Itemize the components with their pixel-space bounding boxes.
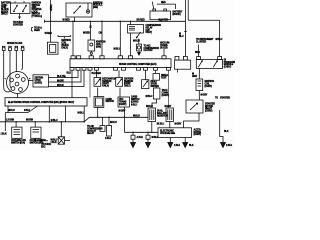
svg-text:BLK: BLK	[224, 131, 229, 133]
label W RED	[63, 20, 71, 22]
svg-text:(GM): (GM)	[96, 46, 101, 48]
svg-text:(CHRY): (CHRY)	[194, 134, 202, 136]
svg-text:RESISTOR: RESISTOR	[157, 115, 168, 117]
pickup A bottom stub	[177, 69, 179, 72]
wire relay box to ECU tab	[130, 33, 132, 56]
ECU top pin tabs	[71, 56, 166, 59]
svg-text:M GRY: M GRY	[119, 110, 126, 112]
spark plug 1	[2, 46, 5, 57]
label M BLU right feed	[179, 34, 184, 38]
svg-text:1 BLK: 1 BLK	[51, 142, 57, 144]
svg-text:GRN: GRN	[192, 76, 197, 78]
svg-text:TEST: TEST	[161, 77, 167, 79]
busR junction dots	[97, 117, 125, 119]
svg-text:(CHRY): (CHRY)	[162, 95, 170, 97]
pickup B diagonal 1	[198, 61, 202, 68]
svg-text:1.5 BRN: 1.5 BRN	[6, 120, 14, 122]
svg-text:M BLU: M BLU	[8, 110, 15, 112]
svg-text:M BRN: M BRN	[26, 120, 33, 122]
svg-text:(CHRY): (CHRY)	[131, 101, 139, 103]
ECU box	[70, 59, 171, 68]
svg-text:ONLY): ONLY)	[61, 47, 68, 49]
wire transducer down to bus3	[123, 107, 125, 132]
knock sensor box	[31, 127, 41, 138]
svg-text:FEED: FEED	[34, 30, 40, 32]
compressor relay branch	[130, 21, 132, 24]
spark plug 4	[21, 46, 24, 57]
carb switch to busR	[97, 107, 99, 117]
label M BLU	[8, 110, 15, 112]
wire ballast B top	[168, 70, 170, 108]
svg-text:M BLU: M BLU	[216, 39, 223, 41]
label M GRY	[119, 110, 126, 112]
relay switch blade	[136, 32, 140, 38]
to buick esc text	[40, 140, 48, 142]
wire circle to distributor box	[29, 80, 34, 82]
svg-text:M BLU: M BLU	[110, 122, 117, 124]
svg-text:M BLU: M BLU	[146, 106, 153, 108]
bus3 junction dots	[132, 132, 152, 134]
bus right (high)	[89, 116, 148, 118]
svg-text:BR RED: BR RED	[137, 20, 146, 22]
ESC left drop	[5, 106, 28, 131]
right ground wire	[220, 110, 223, 143]
svg-text:W RED: W RED	[45, 33, 53, 35]
wire distributor to ESC	[17, 94, 19, 98]
svg-text:ELECTRONIC SPARK CONTROL COMPU: ELECTRONIC SPARK CONTROL COMPUTER (ESC) …	[8, 101, 74, 104]
main bus wire	[45, 20, 186, 22]
alternator ground 2	[184, 138, 186, 143]
right top horizontal	[188, 19, 219, 21]
coolant sensor box	[12, 127, 22, 138]
svg-text:M BLU: M BLU	[133, 41, 140, 43]
ballast resistor A	[148, 108, 156, 122]
wire bus to ECU tab	[72, 21, 74, 56]
svg-text:SWITCH: SWITCH	[106, 101, 115, 103]
to starter text right	[215, 96, 230, 99]
carburetor switch box	[94, 97, 104, 108]
coil connector box	[88, 40, 95, 51]
connector to accessories	[32, 28, 34, 32]
module tower circle	[86, 10, 89, 13]
to instrument cluster text	[196, 39, 214, 43]
connector ticks on M RED	[89, 26, 91, 27]
label M RED	[83, 32, 90, 34]
svg-text:M BLK: M BLK	[57, 85, 64, 87]
ground drop 1	[132, 132, 134, 135]
ignition module box (top middle)	[66, 3, 92, 17]
ignition coil chry box	[196, 79, 203, 91]
label BLK RED	[159, 20, 169, 22]
bus left (low)	[0, 121, 84, 123]
ground drop 2	[147, 132, 149, 135]
svg-text:1 BLK: 1 BLK	[1, 133, 7, 135]
label 5 RED top (rotated)	[49, 5, 51, 12]
tach connector box	[155, 80, 157, 88]
svg-text:RED: RED	[161, 2, 166, 4]
svg-text:SWITCH: SWITCH	[151, 86, 160, 88]
right ground arrow	[221, 143, 226, 148]
wire oxygen to transducer	[119, 88, 121, 98]
distributor cap circle	[7, 72, 29, 94]
plug wire 4	[22, 57, 23, 70]
svg-text:(CHRY): (CHRY)	[35, 82, 43, 84]
svg-text:M BLU: M BLU	[114, 48, 121, 50]
svg-text:VOLTAGE REG: VOLTAGE REG	[160, 132, 175, 135]
svg-text:1 BLK: 1 BLK	[226, 145, 232, 147]
distributor pickup box B	[196, 60, 222, 69]
svg-text:M BLU: M BLU	[146, 96, 153, 98]
ignition coil buick text	[61, 40, 71, 49]
label M BLU bend	[78, 112, 85, 114]
label 1.5 BRN	[6, 120, 14, 122]
plug wire 3	[15, 57, 17, 72]
spark plug 2	[8, 46, 11, 57]
svg-text:(CHRY): (CHRY)	[205, 86, 213, 88]
label BR RED	[137, 20, 146, 22]
M RED branch wire	[90, 21, 92, 40]
svg-text:BLK: BLK	[189, 145, 194, 147]
bus left end bracket	[44, 20, 46, 23]
program module text	[224, 59, 235, 68]
svg-text:(BUICK): (BUICK)	[173, 14, 181, 16]
bus step	[84, 117, 89, 122]
busL junction dots	[15, 121, 85, 123]
wire coil chry down	[198, 91, 200, 101]
label 6 BLK	[24, 110, 30, 112]
wire to ballast A	[152, 99, 157, 108]
connector box below busL	[60, 122, 62, 137]
spark plugs label	[7, 42, 23, 45]
svg-text:M BLU: M BLU	[51, 139, 58, 141]
pickup B top pins	[197, 57, 201, 60]
svg-text:STARTER: STARTER	[220, 96, 230, 99]
battery terminals	[153, 9, 156, 11]
svg-text:TO: TO	[215, 97, 218, 99]
oxygen sensor box	[116, 78, 123, 87]
label M BLU mid	[51, 120, 58, 122]
wire battery to bus	[159, 20, 161, 22]
idle stop switch box	[142, 80, 149, 89]
bus3 wire	[124, 131, 158, 133]
vacuum transducer wire	[163, 49, 165, 56]
red feed wire vertical	[50, 0, 52, 42]
alternator ground 1	[169, 138, 171, 143]
svg-text:(CHRY): (CHRY)	[224, 67, 232, 69]
svg-text:RELAY: RELAY	[87, 132, 95, 135]
label RED	[161, 2, 166, 4]
clutch ground arrow	[138, 53, 141, 56]
svg-text:BRN: BRN	[195, 52, 200, 54]
svg-text:ESC: ESC	[41, 147, 46, 149]
label BLK/RED	[92, 73, 102, 75]
switch blade 1	[14, 5, 18, 11]
svg-text:CLUTCH: CLUTCH	[144, 50, 153, 52]
vacuum transducer chry box	[118, 97, 130, 107]
svg-text:M GRY: M GRY	[165, 106, 172, 108]
svg-text:(TYPICAL): (TYPICAL)	[32, 15, 43, 18]
svg-text:BLU: BLU	[179, 36, 184, 38]
ECU bottom pins	[70, 68, 171, 71]
label M BLU far right	[216, 39, 223, 41]
pickup output wire	[198, 68, 200, 79]
svg-text:M BLK: M BLK	[152, 137, 159, 139]
wire module box to bus	[74, 17, 76, 21]
distributor hold-down tabs	[5, 77, 31, 80]
svg-text:STARTER: STARTER	[13, 23, 23, 26]
svg-text:M BLU: M BLU	[133, 115, 140, 117]
M BLU wire bus to ECU	[119, 21, 121, 56]
resistor block	[47, 42, 58, 54]
right feed double vertical	[186, 0, 189, 56]
svg-text:M GRY: M GRY	[175, 124, 182, 126]
ECU feed wire	[101, 21, 103, 56]
knock box drop	[34, 122, 36, 127]
starter relay box	[186, 100, 203, 113]
svg-text:M BLU: M BLU	[51, 120, 58, 122]
alternator text right	[194, 128, 202, 136]
label M BLU busR	[133, 115, 140, 117]
pickup coil box A	[175, 60, 191, 69]
svg-text:BLK: BLK	[67, 72, 72, 74]
alternator box	[158, 128, 192, 138]
svg-text:BLK YEL: BLK YEL	[57, 76, 67, 78]
dwell connector box	[155, 70, 157, 73]
svg-text:ONLY): ONLY)	[1, 14, 8, 16]
coolant label	[11, 139, 26, 144]
label on ECU feed	[99, 32, 103, 34]
svg-text:SWITCH (BUI): SWITCH (BUI)	[11, 142, 25, 144]
label M BLU near ballast	[146, 96, 153, 98]
wire coil connector to ECU pin	[90, 51, 92, 56]
svg-text:ONLY): ONLY)	[146, 32, 153, 34]
ESC computer box	[5, 98, 87, 106]
knock label	[30, 139, 47, 144]
text right of transducer	[131, 96, 140, 104]
to buick text	[13, 22, 24, 26]
compressor relay box	[128, 25, 144, 33]
plug wire 2	[10, 57, 12, 88]
wire relay to alternator	[184, 113, 200, 128]
battery feed horizontal	[157, 4, 176, 9]
brn wire	[198, 45, 200, 57]
compressor clutch box	[137, 44, 142, 51]
svg-text:ONLY): ONLY)	[102, 86, 109, 88]
module label	[93, 2, 103, 8]
ignition switch label text (right of box)	[32, 3, 43, 18]
plug wire 1	[4, 57, 11, 92]
battery wire diagonal	[152, 2, 154, 9]
bus junction dots	[50, 21, 163, 23]
distributor connector box	[33, 75, 49, 87]
svg-text:(CHRY): (CHRY)	[205, 111, 213, 113]
pickup B diagonal 2	[213, 61, 217, 68]
module switch blade	[74, 6, 81, 13]
label 5 RED lower (rotated)	[45, 33, 53, 35]
wire relay to clutch	[138, 39, 140, 45]
ballast bracket	[58, 35, 71, 39]
battery box	[150, 11, 171, 20]
ESC to busL wires	[49, 106, 84, 122]
svg-text:1 BLK: 1 BLK	[174, 145, 180, 147]
ignition switch box	[11, 3, 31, 14]
svg-text:CLUSTER: CLUSTER	[196, 42, 206, 44]
svg-text:ONLY): ONLY)	[124, 86, 131, 88]
connector under switch	[18, 17, 21, 19]
svg-text:(GM): (GM)	[93, 7, 98, 9]
svg-text:SPARK CONTROL COMPUTER (ECU): SPARK CONTROL COMPUTER (ECU)	[119, 63, 157, 66]
switch blade 2	[23, 5, 27, 11]
svg-text:CM: CM	[99, 32, 103, 34]
ECU ground wire	[71, 70, 73, 98]
connector box pair on busR	[102, 117, 104, 125]
svg-text:6 BLU: 6 BLU	[131, 105, 137, 107]
svg-text:5 RED: 5 RED	[49, 5, 51, 12]
ballast bottom labels	[157, 124, 182, 126]
wire from ignition switch down	[19, 14, 21, 17]
svg-text:A BLK: A BLK	[137, 136, 144, 139]
switch bottom contacts	[13, 11, 24, 13]
ballast B drop to alternator	[169, 122, 171, 128]
ballast resistor B	[166, 108, 174, 122]
vacuum transducer text	[160, 42, 169, 50]
svg-text:M BLU: M BLU	[78, 112, 85, 114]
ballast A drop to bus3	[151, 122, 153, 133]
svg-text:1 BLK: 1 BLK	[105, 138, 111, 140]
dual ballast text	[157, 110, 168, 118]
switch top stubs	[15, 1, 24, 3]
svg-text:SPARK PLUGS: SPARK PLUGS	[7, 42, 23, 45]
ballast labels	[146, 106, 172, 108]
distributor wires to ECU	[49, 70, 79, 77]
ECU wire to ESC	[89, 70, 91, 98]
detonation sensor box	[94, 78, 101, 87]
svg-text:1K BLU: 1K BLU	[157, 124, 165, 126]
svg-text:M GRY: M GRY	[201, 94, 208, 96]
svg-text:W RED: W RED	[63, 20, 71, 22]
pickup A top pins	[175, 56, 179, 60]
right vertical drop	[219, 20, 221, 56]
battery label text (left of switch box)	[1, 2, 11, 16]
svg-text:(CHRY): (CHRY)	[119, 104, 127, 106]
coolant box drop	[15, 122, 17, 127]
tick on right feed	[184, 31, 187, 33]
wire labels	[57, 76, 67, 87]
spark plug 3	[15, 46, 18, 57]
svg-text:M RED: M RED	[83, 32, 90, 34]
distributor towers	[16, 74, 20, 78]
to a/c compressor text	[87, 125, 103, 135]
svg-text:M GRY: M GRY	[57, 80, 64, 82]
ESC diagonal wire	[28, 106, 38, 113]
label M BRN	[26, 120, 33, 122]
